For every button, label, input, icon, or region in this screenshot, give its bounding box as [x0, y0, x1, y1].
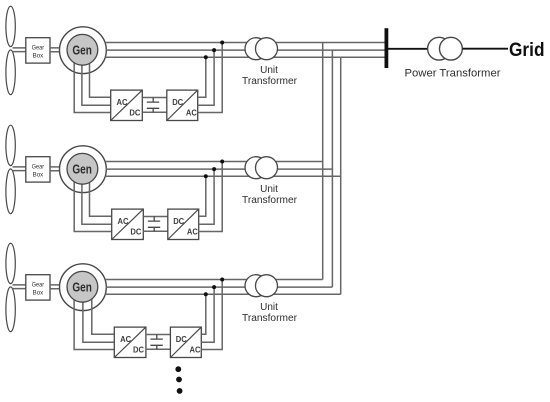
shaft: turbine WT3 to gearbox (double line) — [13, 285, 26, 289]
wire: rotor phase a of G3 to AC/DC converter input — [74, 299, 114, 350]
shaft: gearbox to generator G1 (double line) — [50, 48, 61, 52]
busbar (collection bus bar) — [384, 28, 388, 68]
shaft: turbine WT2 to gearbox (double line) — [13, 167, 26, 171]
wire: collector feeder line 1 (vertical, taps stator line 1 of all units) — [322, 43, 324, 280]
junction node on stator line 1 of unit 2 — [220, 160, 224, 164]
generator G2 rotor (inner circle, "Gen") — [67, 153, 98, 184]
svg-text:Unit: Unit — [260, 302, 278, 313]
wind turbine WT2 blade (top) — [6, 125, 15, 165]
unit transformer T1 (two overlapping circles) — [245, 38, 278, 60]
capacitor C2 (DC link) — [148, 217, 160, 232]
wind turbine WT2 blade (bottom) — [6, 169, 15, 214]
wire: rotor phase a of G1 to AC/DC converter input — [74, 62, 111, 113]
wire: stator line 1 of G3 (top) — [105, 279, 323, 281]
svg-text:DC: DC — [176, 335, 187, 344]
generator G1 stator frame (outer circle) — [60, 27, 107, 74]
svg-text:AC: AC — [187, 227, 198, 236]
wire: inverter output b of unit 2 up to stator line 2 — [199, 169, 214, 224]
rectifier AC/DC converter of unit 1 — [111, 90, 143, 120]
wire: inverter output c of unit 2 up to stator line 1 — [199, 162, 223, 232]
unit transformer T3 (two overlapping circles) — [245, 275, 278, 297]
ellipsis dot 1 (more units below) — [175, 366, 181, 372]
wire: stator line 2 of G1 (middle) — [106, 49, 386, 51]
wire: DC link rail + of unit 2 — [143, 216, 168, 218]
svg-text:AC: AC — [118, 217, 129, 226]
label: Unit Transformer T3 — [242, 302, 298, 324]
label: Unit Transformer T2 — [242, 184, 298, 206]
wire: stator line 3 of G1 (bottom) — [105, 56, 386, 58]
svg-text:Power Transformer: Power Transformer — [405, 67, 501, 79]
wire: rotor phase c of G2 to AC/DC converter input — [90, 181, 112, 216]
wire: rotor phase b of G3 to AC/DC converter input — [83, 299, 114, 342]
shaft: turbine WT1 to gearbox (double line) — [13, 48, 26, 52]
wind turbine WT3 blade (top) — [6, 243, 15, 283]
generator G3 stator frame (outer circle) — [60, 264, 107, 311]
wire: power transformer to grid — [463, 48, 509, 50]
svg-text:Box: Box — [33, 172, 44, 179]
wire: DC link rail + of unit 3 — [146, 334, 171, 336]
label: Unit Transformer T1 — [242, 65, 298, 87]
wire: busbar to power transformer — [388, 48, 428, 50]
wire: inverter output c of unit 3 up to stator line 1 — [201, 280, 222, 350]
svg-text:AC: AC — [190, 345, 201, 354]
svg-text:DC: DC — [172, 98, 183, 107]
junction node on stator line 2 of unit 3 — [212, 285, 216, 289]
wire: stator line 2 of G2 (middle) — [106, 168, 332, 170]
junction node on stator line 1 of unit 1 — [220, 41, 224, 45]
unit transformer T2 (two overlapping circles) — [245, 157, 278, 179]
capacitor C1 (DC link) — [147, 98, 159, 113]
svg-text:Grid: Grid — [509, 40, 545, 61]
junction node on stator line 3 of unit 2 — [204, 174, 208, 178]
wire: rotor phase a of G2 to AC/DC converter input — [74, 181, 112, 232]
svg-text:DC: DC — [133, 345, 144, 354]
wire: rotor phase c of G1 to AC/DC converter input — [90, 62, 111, 97]
svg-text:Transformer: Transformer — [242, 195, 298, 206]
wire: inverter output c of unit 1 up to stator line 1 — [198, 43, 223, 113]
junction node on stator line 3 of unit 1 — [204, 55, 208, 59]
svg-text:Unit: Unit — [260, 65, 278, 76]
wire: rotor phase b of G2 to AC/DC converter input — [82, 181, 112, 224]
wire: DC link rail + of unit 1 — [142, 97, 167, 99]
junction node on stator line 2 of unit 2 — [212, 167, 216, 171]
svg-text:DC: DC — [173, 217, 184, 226]
svg-text:DC: DC — [129, 108, 140, 117]
svg-text:Unit: Unit — [260, 184, 278, 195]
wire: DC link rail - of unit 2 — [143, 230, 168, 232]
wire: stator line 1 of G2 (top) — [105, 161, 323, 163]
wire: rotor phase c of G3 to AC/DC converter input — [92, 299, 115, 334]
svg-text:Gen: Gen — [72, 279, 92, 294]
svg-text:Transformer: Transformer — [242, 76, 298, 87]
wire: stator line 2 of G3 (middle) — [106, 286, 332, 288]
svg-text:AC: AC — [117, 98, 128, 107]
generator G2 stator frame (outer circle) — [60, 146, 107, 193]
wind turbine WT1 blade (top) — [6, 6, 15, 46]
inverter DC/AC converter of unit 1 — [167, 90, 198, 120]
inverter DC/AC converter of unit 2 — [168, 209, 199, 239]
wire: DC link rail - of unit 1 — [142, 111, 167, 113]
svg-text:Box: Box — [33, 290, 44, 297]
svg-text:AC: AC — [186, 108, 197, 117]
svg-text:DC: DC — [130, 227, 141, 236]
generator G1 rotor (inner circle, "Gen") — [67, 34, 98, 65]
wire: inverter output a of unit 1 up to stator line 3 — [198, 57, 206, 97]
capacitor C3 (DC link) — [150, 335, 162, 350]
svg-text:AC: AC — [120, 335, 131, 344]
wire: stator line 3 of G3 (bottom) — [105, 293, 341, 295]
gearbox GB3 — [26, 275, 50, 300]
junction node on stator line 1 of unit 3 — [220, 278, 224, 282]
junction node on stator line 2 of unit 1 — [212, 48, 216, 52]
gearbox GB1 — [26, 38, 50, 63]
generator G3 rotor (inner circle, "Gen") — [67, 271, 98, 302]
ellipsis dot 3 — [177, 388, 183, 394]
power transformer TP (two overlapping circles) — [428, 37, 463, 60]
wire: stator line 1 of G1 (top) — [105, 42, 386, 44]
wire: inverter output a of unit 2 up to stator line 3 — [199, 176, 206, 216]
shaft: gearbox to generator G3 (double line) — [50, 285, 61, 289]
wind turbine WT1 blade (bottom) — [6, 50, 15, 95]
svg-text:Gen: Gen — [72, 42, 92, 57]
wire: inverter output b of unit 1 up to stator line 2 — [198, 50, 214, 105]
inverter DC/AC converter of unit 3 — [170, 327, 201, 357]
wire: collector feeder line 2 (vertical, taps stator line 2 of all units) — [331, 50, 333, 287]
svg-text:Transformer: Transformer — [242, 313, 298, 324]
rectifier AC/DC converter of unit 3 — [114, 327, 146, 357]
svg-text:Gen: Gen — [72, 161, 92, 176]
svg-text:Gear: Gear — [32, 44, 45, 51]
svg-text:Gear: Gear — [32, 281, 45, 288]
svg-text:Gear: Gear — [32, 163, 45, 170]
wire: inverter output b of unit 3 up to stator line 2 — [201, 287, 214, 342]
rectifier AC/DC converter of unit 2 — [112, 209, 144, 239]
svg-text:Box: Box — [33, 53, 44, 60]
junction node on stator line 3 of unit 3 — [204, 292, 208, 296]
shaft: gearbox to generator G2 (double line) — [50, 167, 61, 171]
wire: collector feeder line 3 (vertical, taps stator line 3 of all units) — [340, 57, 342, 294]
wire: stator line 3 of G2 (bottom) — [105, 175, 341, 177]
gearbox GB2 — [26, 157, 50, 182]
wire: inverter output a of unit 3 up to stator line 3 — [201, 294, 206, 334]
wind turbine WT3 blade (bottom) — [6, 287, 15, 332]
wire: rotor phase b of G1 to AC/DC converter input — [82, 62, 111, 105]
wire: DC link rail - of unit 3 — [146, 348, 171, 350]
ellipsis dot 2 — [176, 377, 182, 383]
